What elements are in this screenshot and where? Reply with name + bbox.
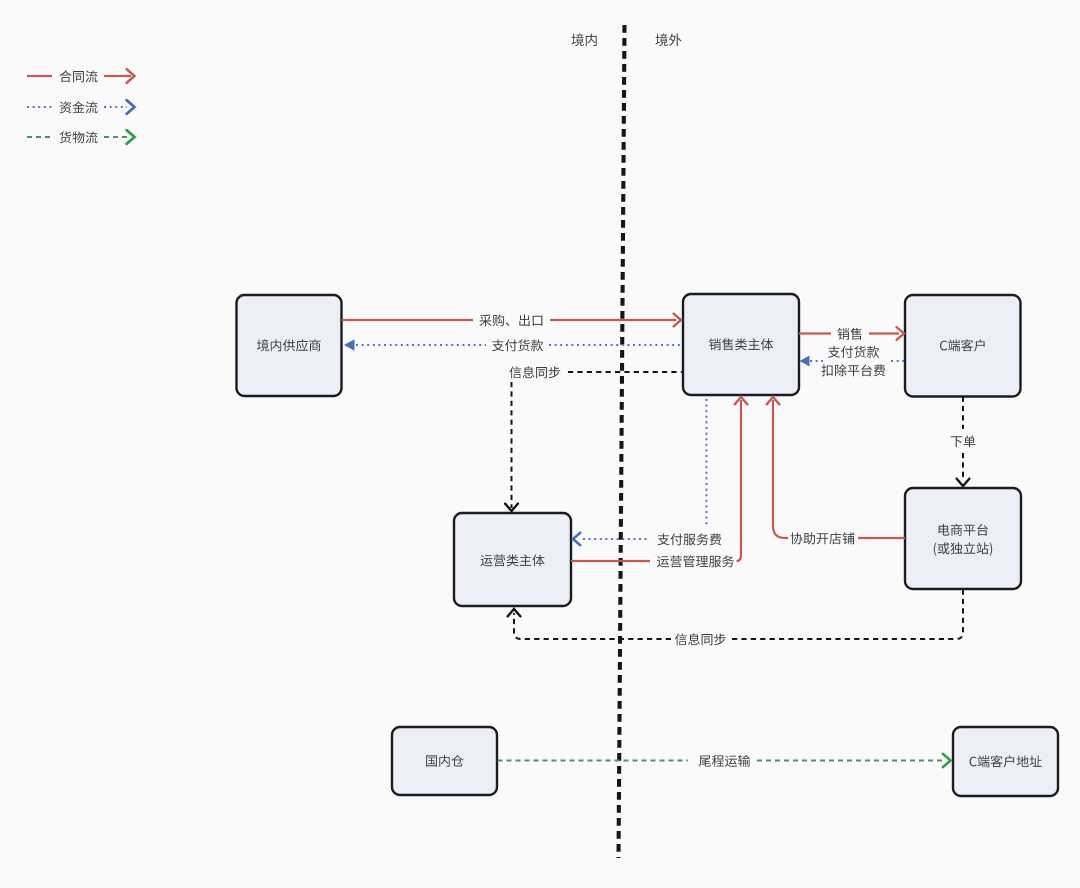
wire 下单 black dashed C端客户 to platform [957,397,970,487]
label 支付服务费 [658,533,722,545]
border line (dashed divider) [619,25,625,858]
wire 信息同步 black dashed sales to operator [505,372,683,511]
wire 运营管理服务 red operator to sales [571,397,747,561]
wire 采购、出口 red arrow supplier to sales [342,314,682,327]
box C端客户 [905,295,1021,397]
legend goods-flow sample line [27,136,52,138]
box 销售类主体 [683,294,799,395]
label 运营管理服务 [657,555,734,567]
label 支付货款 (right) [828,346,879,358]
label 信息同步 (bottom) [675,633,726,645]
legend contract-flow sample line [27,75,52,77]
legend label 合同流 [60,70,98,82]
wire 支付货款扣除平台费 blue dotted C端客户 to sales [800,356,905,367]
label 尾程运输 [699,755,750,767]
wire 尾程运输 green dashed warehouse to C端客户地址 [498,754,951,767]
box C端客户地址 [953,727,1058,796]
wire 协助开店铺 red platform to sales [767,397,905,538]
box 国内仓 [392,727,497,795]
legend goods-flow arrow [104,130,135,144]
legend label 货物流 [60,131,98,143]
label 信息同步 (top) [509,366,560,378]
label 支付货款 (left) [492,339,543,351]
wire 销售 red arrow sales to C端客户 [799,327,904,340]
wire 支付服务费 blue dotted sales to operator [573,399,707,545]
wire 支付货款 blue dotted sales to supplier [344,339,683,350]
label 扣除平台费 [821,364,885,376]
legend money-flow sample line [27,106,52,108]
legend label 资金流 [60,101,98,113]
legend contract-flow arrow [104,69,135,83]
legend money-flow arrow [104,100,135,114]
label 境外 [656,34,682,47]
box 境内供应商 [237,295,342,396]
label 境内 [572,34,597,47]
box 电商平台(或独立站) [905,488,1021,589]
box 运营类主体 [454,513,571,606]
label 采购、出口 [479,314,542,326]
label 协助开店铺 [791,532,855,544]
label 销售 [838,328,862,340]
wire 信息同步 black dashed platform to operator [508,590,963,640]
label 下单 [951,435,976,447]
